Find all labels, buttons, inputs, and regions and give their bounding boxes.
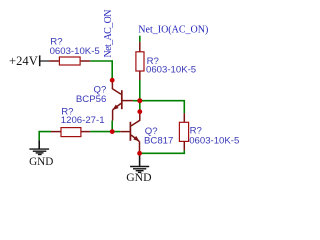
svg-text:Net_AC_ON: Net_AC_ON: [103, 10, 114, 58]
svg-text:+24V: +24V: [9, 54, 38, 68]
ground GND (left): [29, 140, 53, 168]
wire Q1 base to node: [133, 100, 140, 102]
wire node down to Q2 collector: [139, 101, 141, 112]
ground GND (middle): [126, 153, 151, 184]
junction node Q2 collector: [137, 109, 142, 114]
junction node collector Q1: [110, 78, 115, 83]
resistor R4 (R? 1206-27-1): [51, 128, 90, 137]
svg-text:GND: GND: [126, 171, 151, 184]
svg-text:0603-10K-5: 0603-10K-5: [146, 64, 196, 75]
resistor R2 (R? 0603-10K-5): [136, 42, 144, 80]
junction node Q2 emitter: [137, 151, 142, 156]
resistor R3 (R? 0603-10K-5): [179, 113, 188, 150]
wire Q1 emitter down: [111, 121, 113, 132]
transistor Q2 (Q? BC817): [120, 112, 140, 154]
svg-text:1206-27-1: 1206-27-1: [61, 115, 105, 126]
svg-text:BC817: BC817: [144, 135, 173, 146]
wire node to R3: [140, 101, 185, 114]
label R? 0603-10K-5 for resistor R1: [50, 37, 100, 57]
svg-text:0603-10K-5: 0603-10K-5: [189, 135, 239, 146]
transistor Q1 (Q? BCP56): [112, 80, 132, 120]
label R? 0603-10K-5 for resistor R2: [146, 56, 196, 75]
svg-text:0603-10K-5: 0603-10K-5: [50, 46, 100, 57]
wire R4 to GND: [39, 132, 51, 141]
label R? 1206-27-1 for resistor R4: [61, 106, 105, 126]
wire from R1 to node: [90, 61, 112, 79]
wire node to R4: [90, 131, 112, 133]
svg-text:BCP56: BCP56: [76, 94, 106, 105]
label Q? BCP56 for transistor Q1: [76, 84, 106, 105]
label R? 0603-10K-5 for resistor R3: [189, 125, 239, 146]
junction node Q2 base: [110, 129, 115, 134]
wire stub top of R2: [139, 36, 141, 42]
svg-text:Net_IO(AC_ON): Net_IO(AC_ON): [138, 24, 208, 35]
wire R3 bottom to GND net: [140, 150, 185, 153]
junction node base Q1: [137, 98, 142, 103]
resistor R1 (R? 0603-10K-5): [49, 57, 90, 65]
wire R2 bottom to node: [139, 80, 141, 101]
power port +24V: [9, 54, 49, 68]
wire Q2 base left: [112, 131, 120, 133]
label Q? BC817 for transistor Q2: [144, 126, 173, 146]
svg-text:GND: GND: [29, 156, 53, 168]
